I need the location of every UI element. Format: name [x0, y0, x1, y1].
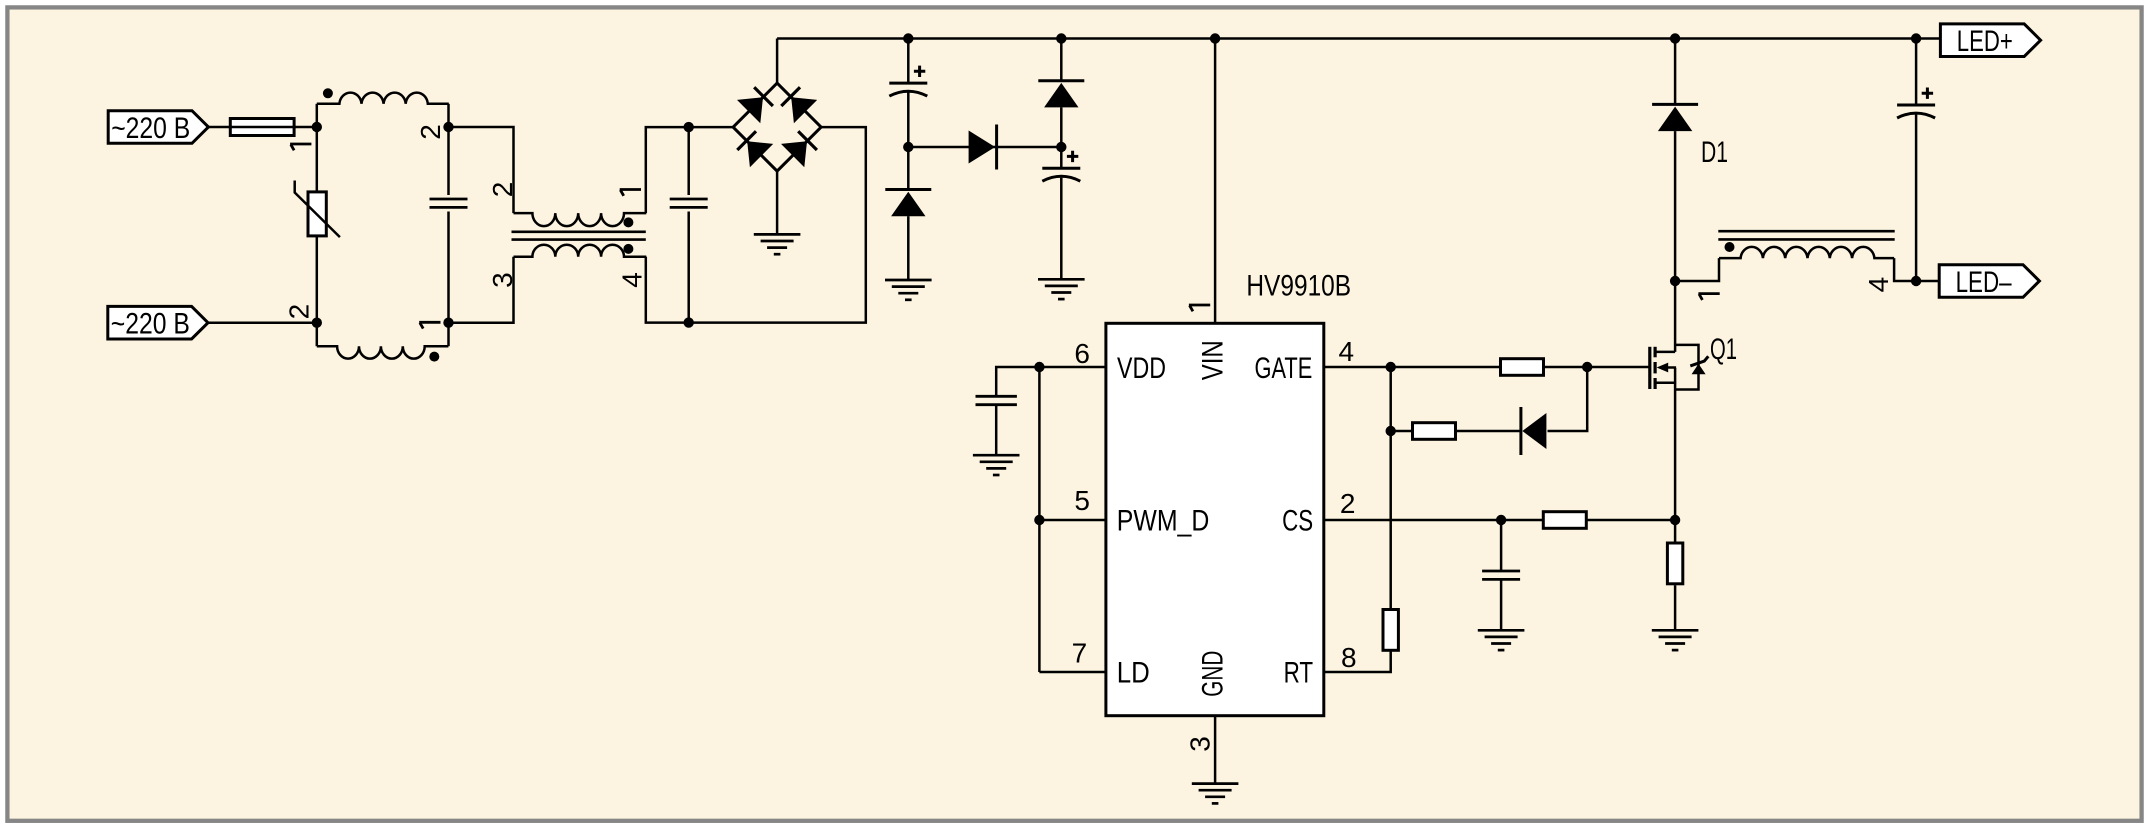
connector LED+	[1940, 24, 2040, 58]
node branch/R2	[1386, 426, 1396, 436]
bridge diode upper-right	[781, 87, 817, 123]
svg-text:~220 В: ~220 В	[111, 308, 190, 341]
node L2/C7	[1911, 276, 1921, 286]
diode VD7 (from rail)	[1038, 39, 1084, 148]
wire T1 pin4 to bridge (bottom rail)	[646, 127, 866, 323]
capacitor C5 (VDD)	[976, 367, 1040, 455]
node gate/diode return	[1582, 362, 1592, 372]
inductor L2 pin label 4	[1863, 277, 1894, 293]
transformer T1 pin label 2	[487, 182, 518, 198]
wire gate branch vertical	[1324, 367, 1391, 672]
wire choke left vertical	[316, 127, 319, 323]
choke L1 pin label 1 bottom	[419, 322, 440, 328]
node CS/C6	[1496, 515, 1506, 525]
diode VD6 (series)	[908, 125, 1061, 170]
capacitor C4 (electrolytic)	[1042, 147, 1080, 279]
node X2/choke junction	[312, 318, 322, 328]
wire VIN from rail	[1214, 39, 1217, 324]
node bus/pin5	[1034, 515, 1044, 525]
choke L1 winding 1-2 (top)	[317, 93, 449, 127]
capacitor C1 (X-cap)	[430, 127, 468, 323]
node D1/L2	[1670, 276, 1680, 286]
wire choke to T1 primary top	[449, 127, 514, 213]
svg-text:RT: RT	[1284, 656, 1314, 689]
wire T1 pin1 to bridge	[646, 127, 733, 213]
capacitor C6 (CS filter)	[1482, 520, 1520, 630]
choke L1 phase dot top	[323, 88, 333, 98]
node C3/VD5	[903, 142, 913, 152]
node rail/VIN	[1210, 33, 1220, 43]
capacitor C7 (output electrolytic)	[1897, 39, 1935, 282]
svg-text:LED+: LED+	[1957, 25, 2013, 58]
wire CS pin2	[1324, 519, 1675, 522]
node CS/sense	[1670, 515, 1680, 525]
svg-text:8: 8	[1341, 642, 1357, 673]
node rail/VD7	[1056, 33, 1066, 43]
resistor R2 (turn-off)	[1413, 423, 1456, 440]
svg-text:2: 2	[415, 124, 446, 140]
wire X1 to fuse node	[206, 126, 316, 129]
diode VD8 (gate discharge)	[1521, 367, 1587, 455]
ground under C6	[1478, 630, 1525, 650]
transformer T1 phase dot pin4	[623, 244, 633, 254]
svg-text:2: 2	[487, 182, 518, 198]
transformer T1 core	[512, 232, 646, 240]
svg-text:HV9910B: HV9910B	[1246, 270, 1351, 303]
wire left bus	[1038, 367, 1041, 672]
transistor Q1 body zener	[1690, 356, 1708, 374]
bridge rectifier VD1 diamond	[733, 83, 821, 171]
transformer T1 pin label 4	[617, 272, 648, 288]
inductor L2 pin label 1	[1698, 294, 1719, 300]
ground under VD5	[885, 280, 932, 300]
choke L1 winding 2-1 (bottom)	[317, 323, 449, 359]
transistor Q1 source vertical	[1674, 368, 1677, 543]
wire VDD pin6 stub	[1039, 366, 1106, 369]
inductor L2 winding	[1675, 247, 1916, 281]
IC U1 VIN label	[1197, 340, 1230, 380]
transformer T1 winding 3-4 (bottom)	[514, 245, 647, 257]
node VD6/C4	[1056, 142, 1066, 152]
ground bridge	[754, 234, 801, 254]
IC U1 GND label	[1197, 651, 1230, 697]
node gate/branch	[1386, 362, 1396, 372]
resistor R5 (current sense)	[1667, 543, 1682, 630]
ground IC pin3	[1192, 784, 1239, 804]
diode D1	[1652, 39, 1698, 352]
svg-text:D1: D1	[1701, 136, 1728, 169]
svg-text:5: 5	[1074, 485, 1090, 516]
connector X2 ~220 V (bottom input)	[108, 306, 208, 340]
wire top DC rail	[777, 37, 1940, 40]
capacitor C2 (bridge input)	[670, 127, 708, 323]
svg-text:PWM_D: PWM_D	[1117, 505, 1210, 538]
wire LD pin7 stub	[1039, 671, 1106, 674]
node rail/C7	[1911, 33, 1921, 43]
wire choke to T1 primary bottom	[449, 257, 514, 323]
svg-text:4: 4	[1863, 277, 1894, 293]
varistor RU1	[295, 181, 340, 238]
bridge diode lower-left	[737, 131, 773, 167]
transistor Q1 drain lead	[1655, 351, 1675, 354]
IC U1 HV9910B box	[1106, 323, 1324, 715]
svg-text:6: 6	[1074, 338, 1090, 369]
fuse FU1	[229, 119, 296, 136]
ground under C5	[973, 455, 1020, 475]
wire GND pin3	[1214, 716, 1217, 784]
transistor Q1 body diode loop	[1675, 345, 1698, 390]
transistor Q1 body arrow	[1657, 363, 1677, 373]
IC U1 pin1 label	[1189, 305, 1210, 311]
node choke-2 junction	[443, 122, 453, 132]
resistor R4 (CS filter)	[1543, 512, 1586, 529]
svg-text:LED–: LED–	[1956, 266, 2012, 299]
node rail/C3	[903, 33, 913, 43]
node fuse/choke junction	[312, 122, 322, 132]
svg-text:2: 2	[1340, 488, 1356, 519]
inductor L2 phase dot	[1725, 242, 1735, 252]
choke L1 pin label 2 bottom	[283, 304, 314, 320]
svg-text:~220 В: ~220 В	[111, 112, 190, 145]
svg-text:7: 7	[1072, 637, 1088, 668]
svg-text:VDD: VDD	[1117, 352, 1166, 385]
node rail/D1	[1670, 33, 1680, 43]
svg-text:LD: LD	[1117, 656, 1150, 689]
transformer T1 winding 2-1 (top)	[514, 213, 647, 226]
connector X1 ~220 V (top input)	[108, 111, 208, 145]
transformer T1 pin label 3	[487, 272, 518, 288]
wire bridge top to rail	[776, 39, 779, 84]
transistor Q1 channel stubs	[1653, 347, 1656, 389]
wire bridge bottom to ground	[776, 171, 779, 234]
transistor Q1 gate bar	[1648, 347, 1651, 389]
transistor Q1 source lead	[1655, 382, 1676, 385]
svg-text:CS: CS	[1282, 505, 1313, 538]
inductor L2 core	[1718, 231, 1894, 239]
wire GATE pin4 to Q1	[1324, 366, 1650, 369]
diode VD5 (to ground)	[885, 147, 931, 280]
wire PWM_D pin5 stub	[1039, 519, 1106, 522]
transformer T1 pin label 1	[620, 190, 641, 196]
capacitor C3 (electrolytic)	[889, 39, 927, 148]
node bus/pin6	[1034, 362, 1044, 372]
svg-text:4: 4	[617, 272, 648, 288]
connector LED-	[1939, 265, 2039, 299]
node choke-1 junction	[443, 318, 453, 328]
IC U1 pin3 label	[1185, 736, 1216, 752]
ground under R5	[1652, 630, 1699, 650]
svg-text:4: 4	[1339, 336, 1355, 367]
choke L1 pin label 2	[415, 124, 446, 140]
svg-text:Q1: Q1	[1710, 333, 1737, 366]
svg-text:VIN: VIN	[1197, 340, 1230, 380]
svg-text:3: 3	[1185, 736, 1216, 752]
choke L1 phase dot bottom	[429, 352, 439, 362]
resistor R1 (gate)	[1501, 359, 1544, 376]
transformer T1 phase dot pin1	[623, 217, 633, 227]
bridge diode upper-left	[737, 87, 773, 123]
svg-text:GND: GND	[1197, 651, 1230, 697]
svg-text:3: 3	[487, 272, 518, 288]
ground under C4	[1038, 279, 1085, 299]
node C2 bottom	[684, 317, 694, 327]
wire R2 branch	[1391, 430, 1521, 433]
bridge diode lower-right	[781, 131, 817, 167]
wire X2 to choke node	[206, 321, 317, 324]
wire to LED- flag	[1916, 280, 1939, 283]
node C2 top	[684, 122, 694, 132]
svg-text:GATE: GATE	[1255, 352, 1313, 385]
svg-text:2: 2	[283, 304, 314, 320]
choke L1 pin label 1	[290, 144, 311, 150]
resistor R3 (RT)	[1383, 610, 1398, 651]
